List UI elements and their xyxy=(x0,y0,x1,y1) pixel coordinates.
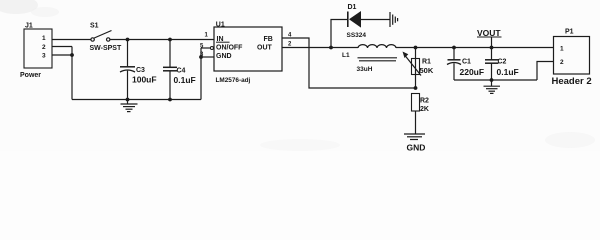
wire J1 pin3 stub xyxy=(52,54,72,56)
junction C3 top xyxy=(126,38,130,42)
svg-text:100uF: 100uF xyxy=(132,75,157,85)
svg-text:J1: J1 xyxy=(25,23,33,30)
svg-text:ON/OFF: ON/OFF xyxy=(216,45,243,52)
junction C1 top xyxy=(452,46,456,50)
switch S1 xyxy=(91,31,112,42)
junction C4 top xyxy=(168,38,172,42)
svg-text:U1: U1 xyxy=(216,22,225,29)
svg-text:50K: 50K xyxy=(420,66,434,75)
ground rail bottom-left xyxy=(72,99,201,101)
svg-text:SW-SPST: SW-SPST xyxy=(90,45,122,52)
wire J1 pin2 stub xyxy=(52,46,72,48)
capacitor C4 xyxy=(163,40,177,100)
junction C2 bottom xyxy=(490,78,494,82)
wire S1 to U1 IN xyxy=(110,39,214,41)
wire U1 ground vertical xyxy=(200,48,202,100)
svg-text:R1: R1 xyxy=(422,59,431,66)
wire up to D1 xyxy=(331,20,347,48)
svg-text:C2: C2 xyxy=(498,59,507,66)
svg-text:VOUT: VOUT xyxy=(477,28,501,38)
wire left vertical down to ground rail xyxy=(71,47,73,100)
wire D1 anode to ground xyxy=(361,19,390,21)
potentiometer R1 xyxy=(405,48,421,89)
capacitor C2 xyxy=(485,48,499,81)
svg-text:C1: C1 xyxy=(462,59,471,66)
svg-text:L1: L1 xyxy=(342,52,350,59)
capacitor C1 xyxy=(447,48,461,81)
junction U1 pin3 xyxy=(199,55,203,59)
svg-text:Header 2: Header 2 xyxy=(552,76,592,87)
capacitor C3 xyxy=(120,40,135,100)
junction FB/R1/R2 xyxy=(414,86,418,90)
svg-text:GND: GND xyxy=(407,143,426,152)
svg-text:LM2576-adj: LM2576-adj xyxy=(216,77,251,84)
svg-text:GND: GND xyxy=(216,53,232,60)
svg-text:1: 1 xyxy=(560,46,564,53)
junction C4 bottom xyxy=(168,98,172,102)
inversion bubble pin5 xyxy=(210,47,213,50)
ground under C3 xyxy=(121,100,138,112)
resistor R2 xyxy=(412,94,420,134)
ground sideways after D1 xyxy=(390,12,398,27)
svg-text:C3: C3 xyxy=(136,67,145,74)
svg-text:0.1uF: 0.1uF xyxy=(174,75,196,85)
ground under output rail xyxy=(484,80,501,93)
svg-text:P1: P1 xyxy=(565,29,574,36)
junction pin2/pin3 xyxy=(70,53,74,57)
inductor L1 xyxy=(358,45,398,61)
connector P1 xyxy=(554,37,590,75)
svg-text:OUT: OUT xyxy=(257,45,273,52)
ground under R2 xyxy=(404,134,425,140)
svg-text:220uF: 220uF xyxy=(460,67,485,77)
output ground rail xyxy=(454,79,537,81)
svg-text:0.1uF: 0.1uF xyxy=(497,67,519,77)
svg-text:C4: C4 xyxy=(177,68,186,75)
svg-text:1: 1 xyxy=(42,35,46,42)
wire P1 pin2 xyxy=(537,62,554,81)
wire FB feedback xyxy=(282,38,416,88)
svg-text:2K: 2K xyxy=(420,106,429,113)
svg-text:FB: FB xyxy=(264,36,273,43)
junction R1 top xyxy=(414,46,418,50)
wire output rail L1 to P1 xyxy=(396,47,554,49)
junction VOUT/C2 top xyxy=(490,46,494,50)
wire J1 pin1 to S1 xyxy=(52,39,91,41)
wire pin3 stub xyxy=(201,56,214,58)
svg-text:2: 2 xyxy=(560,59,564,66)
wire pin5 stub xyxy=(201,47,210,49)
svg-text:2: 2 xyxy=(42,44,46,51)
connector J1 xyxy=(24,29,52,68)
pin name ON/OFF with overbar xyxy=(216,41,230,43)
svg-text:R2: R2 xyxy=(420,98,429,105)
svg-text:Power: Power xyxy=(20,72,41,79)
wire OUT to L1 xyxy=(282,47,358,49)
diode D1 xyxy=(348,11,361,28)
svg-text:D1: D1 xyxy=(348,4,357,11)
IC U1 LM2576-adj xyxy=(214,27,282,71)
junction switch node xyxy=(329,46,333,50)
svg-text:3: 3 xyxy=(42,53,46,60)
svg-text:33uH: 33uH xyxy=(357,66,373,73)
junction C3 bottom xyxy=(126,98,130,102)
svg-text:S1: S1 xyxy=(90,23,99,30)
svg-text:SS324: SS324 xyxy=(347,32,367,39)
